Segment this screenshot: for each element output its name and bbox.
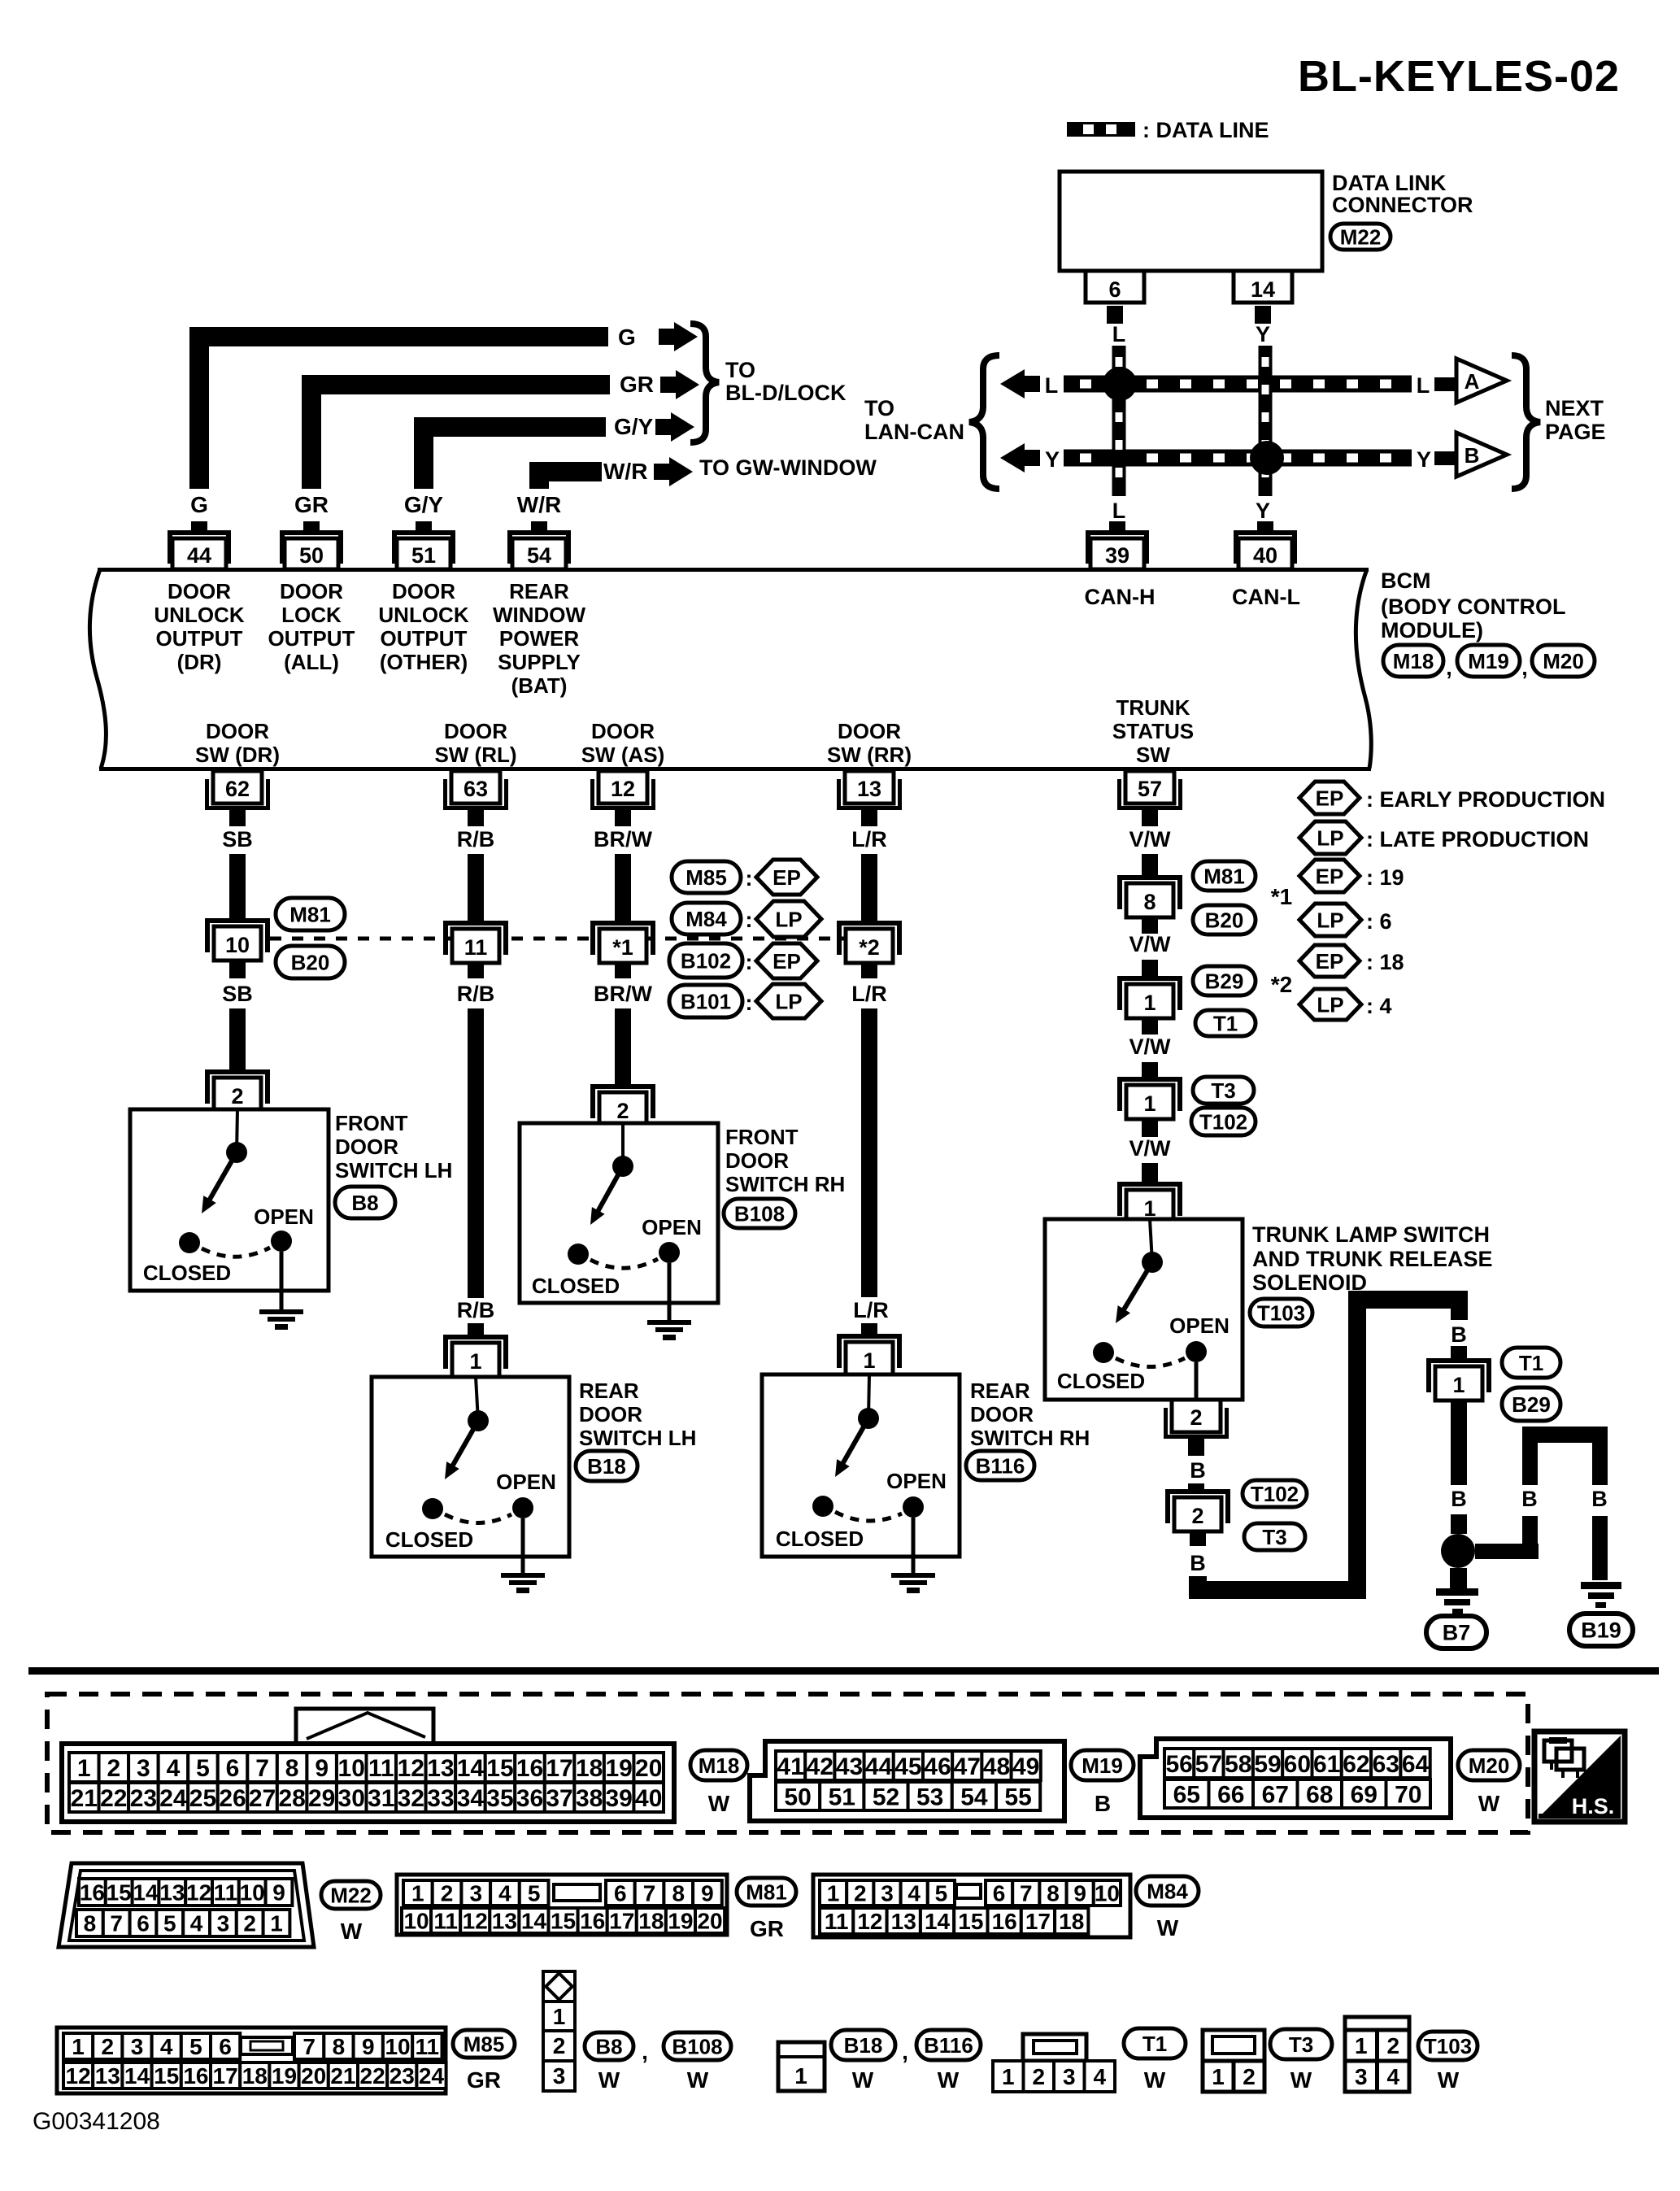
- wire stub below junction: [1450, 1568, 1467, 1588]
- wire L/R long segment: [861, 1008, 877, 1297]
- label V/W 3: [1129, 1035, 1172, 1059]
- connector table B18/B116: [778, 2042, 825, 2091]
- ground of front door switch LH: [259, 1252, 303, 1330]
- svg-text:BL-KEYLES-02: BL-KEYLES-02: [1298, 52, 1620, 101]
- data line Y vertical wire: [1259, 346, 1273, 496]
- wire V/W segment 1: [1142, 854, 1158, 877]
- label FRONT DOOR SWITCH LH: [335, 1111, 452, 1183]
- svg-text:23: 23: [390, 2063, 415, 2089]
- svg-text:W: W: [687, 2067, 709, 2093]
- svg-text:4: 4: [1386, 2064, 1399, 2089]
- svg-text:W: W: [1478, 1791, 1500, 1816]
- svg-text:OPEN: OPEN: [886, 1469, 947, 1493]
- svg-text:B20: B20: [291, 950, 330, 974]
- svg-text:B20: B20: [1205, 908, 1244, 932]
- label L left: [1045, 373, 1059, 398]
- label *2: [1271, 972, 1292, 997]
- svg-text:21: 21: [71, 1785, 98, 1812]
- svg-text:B18: B18: [587, 1454, 626, 1479]
- connector ref oval B20 trunk: [1193, 905, 1256, 934]
- svg-text:20: 20: [301, 2063, 326, 2089]
- svg-text:DOOR: DOOR: [591, 719, 655, 743]
- wire GR from pin 50 to BL-D/LOCK: [302, 375, 610, 489]
- label R/B lower: [457, 982, 495, 1006]
- svg-text:*1: *1: [1271, 884, 1292, 909]
- svg-text:6: 6: [219, 2034, 232, 2059]
- svg-text:W/R: W/R: [603, 459, 647, 484]
- svg-text::: :: [746, 866, 753, 891]
- svg-text:BR/W: BR/W: [594, 982, 652, 1006]
- svg-text:SW (AS): SW (AS): [581, 743, 665, 767]
- svg-text:62: 62: [1343, 1751, 1369, 1778]
- connector ref oval M22 table: [321, 1881, 381, 1909]
- connector ref oval M22: [1330, 224, 1391, 250]
- svg-text:MODULE): MODULE): [1381, 618, 1483, 642]
- connector ref oval M85 table: [453, 2030, 515, 2058]
- svg-text:1: 1: [1143, 991, 1156, 1015]
- svg-text:14: 14: [133, 1880, 159, 1906]
- svg-text:9: 9: [1073, 1881, 1086, 1906]
- svg-text:2: 2: [854, 1881, 867, 1906]
- svg-text:M85: M85: [685, 865, 727, 890]
- svg-text:DOOR: DOOR: [970, 1402, 1034, 1427]
- svg-text:23: 23: [130, 1785, 157, 1812]
- svg-text:15: 15: [551, 1909, 576, 1934]
- svg-text:REAR: REAR: [509, 579, 569, 603]
- label GR M85: [467, 2067, 501, 2093]
- svg-text:3: 3: [137, 1755, 150, 1782]
- svg-text:SB: SB: [222, 982, 253, 1006]
- svg-text:34: 34: [457, 1785, 485, 1812]
- svg-text:DOOR: DOOR: [206, 719, 269, 743]
- svg-text:V/W: V/W: [1129, 932, 1172, 956]
- svg-text:EP: EP: [1316, 949, 1344, 974]
- connector table M85: [57, 2028, 446, 2093]
- label L right: [1417, 373, 1430, 398]
- svg-text:LP: LP: [1317, 908, 1343, 932]
- svg-text:M84: M84: [1147, 1879, 1188, 1903]
- svg-text:1: 1: [469, 1349, 481, 1374]
- svg-text:1: 1: [1143, 1091, 1156, 1116]
- svg-text:18: 18: [1059, 1909, 1084, 1934]
- svg-text:B116: B116: [976, 1453, 1025, 1478]
- svg-text:CLOSED: CLOSED: [776, 1527, 864, 1551]
- label W M18: [708, 1791, 730, 1816]
- connector 1 of rear door switch LH: [443, 1335, 508, 1377]
- svg-text:12: 12: [186, 1880, 211, 1906]
- svg-text:T3: T3: [1262, 1525, 1286, 1549]
- svg-text:T103: T103: [1257, 1300, 1305, 1325]
- svg-text:24: 24: [159, 1785, 187, 1812]
- label CAN-H: [1085, 585, 1156, 609]
- svg-text:DOOR: DOOR: [579, 1402, 642, 1427]
- svg-text:69: 69: [1351, 1781, 1378, 1808]
- label BCM (BODY CONTROL MODULE): [1381, 568, 1566, 642]
- svg-text:Y: Y: [1256, 322, 1270, 346]
- connector ref oval M85 with EP: [672, 860, 817, 895]
- pin 12 BCM: [590, 771, 655, 826]
- svg-text:LP: LP: [1317, 825, 1343, 850]
- connector ref oval M19 of BCM: [1457, 645, 1520, 677]
- svg-text:8: 8: [84, 1911, 97, 1936]
- svg-text:40: 40: [635, 1785, 662, 1812]
- svg-text:B: B: [1451, 1487, 1467, 1511]
- connector ref oval M20 table: [1458, 1750, 1520, 1780]
- connector 2 of front door switch LH: [205, 1069, 270, 1112]
- connector ref oval B102 with EP: [669, 943, 817, 978]
- svg-text:1: 1: [553, 2004, 566, 2029]
- label SB lower: [222, 982, 253, 1006]
- svg-text:,: ,: [902, 2039, 908, 2064]
- pin 62 BCM: [205, 771, 270, 826]
- ground of front door switch RH: [647, 1263, 691, 1340]
- svg-text:17: 17: [213, 2063, 238, 2089]
- label SB: [222, 827, 253, 852]
- svg-text:7: 7: [1020, 1881, 1033, 1906]
- svg-text:44: 44: [865, 1753, 893, 1780]
- label B right branch: [1591, 1487, 1608, 1511]
- svg-text:12: 12: [611, 777, 635, 801]
- svg-text:15: 15: [958, 1909, 983, 1934]
- in-line connector 1 T1/B29: [1426, 1358, 1491, 1400]
- connector ref oval B108 table: [664, 2032, 731, 2060]
- svg-text:B19: B19: [1581, 1618, 1621, 1643]
- connector ref oval T102: [1243, 1480, 1307, 1507]
- svg-text:1: 1: [270, 1911, 283, 1936]
- svg-text:L: L: [1417, 373, 1430, 398]
- svg-text:UNLOCK: UNLOCK: [154, 603, 244, 627]
- svg-text:B7: B7: [1443, 1621, 1471, 1645]
- svg-text:10: 10: [240, 1880, 265, 1906]
- harness view icon H.S.: [1534, 1731, 1625, 1822]
- svg-text:24: 24: [419, 2063, 445, 2089]
- svg-text:REAR: REAR: [970, 1379, 1030, 1403]
- svg-text:17: 17: [1025, 1909, 1051, 1934]
- svg-text:13: 13: [95, 2063, 120, 2089]
- wire V/W segment 3: [1142, 1062, 1158, 1077]
- svg-text:T103: T103: [1424, 2034, 1472, 2058]
- wire R/B stub to connector 1: [468, 1323, 484, 1336]
- label L/R bottom: [853, 1298, 889, 1322]
- svg-text:: DATA LINE: : DATA LINE: [1142, 118, 1269, 142]
- svg-text:6: 6: [1108, 277, 1121, 302]
- svg-text:LAN-CAN: LAN-CAN: [864, 420, 964, 444]
- svg-text:M19: M19: [1468, 649, 1509, 673]
- label B above junction: [1451, 1487, 1467, 1511]
- pin 57 BCM: [1117, 771, 1182, 826]
- svg-text:AND TRUNK RELEASE: AND TRUNK RELEASE: [1252, 1247, 1493, 1271]
- dashed harness box M18 M19 M20: [47, 1694, 1528, 1832]
- svg-text::: :: [746, 908, 753, 932]
- svg-text:9: 9: [362, 2034, 375, 2059]
- hexagon LP 6: [1299, 904, 1392, 936]
- svg-text:49: 49: [1012, 1753, 1039, 1780]
- label V/W 4: [1129, 1136, 1172, 1161]
- svg-text:B8: B8: [595, 2034, 622, 2058]
- label REAR DOOR SWITCH LH: [579, 1379, 696, 1450]
- svg-text:4: 4: [167, 1755, 181, 1782]
- label REAR DOOR SWITCH RH: [970, 1379, 1090, 1450]
- svg-text:LOCK: LOCK: [281, 603, 342, 627]
- svg-text:48: 48: [983, 1753, 1010, 1780]
- svg-text:37: 37: [546, 1785, 572, 1812]
- svg-text:NEXT: NEXT: [1545, 396, 1604, 420]
- wire L/R upper segment: [861, 854, 877, 921]
- svg-text:SW (DR): SW (DR): [195, 743, 280, 767]
- svg-text:29: 29: [308, 1785, 335, 1812]
- svg-text:B116: B116: [924, 2033, 973, 2058]
- label DOOR SW (DR): [195, 719, 280, 767]
- svg-text:2: 2: [107, 1755, 120, 1782]
- svg-text:M22: M22: [330, 1883, 372, 1907]
- svg-text:9: 9: [315, 1755, 329, 1782]
- svg-text:27: 27: [249, 1785, 276, 1812]
- label W/R above pin 54: [517, 492, 561, 517]
- connector ref oval T1 trunk: [1195, 1010, 1256, 1036]
- svg-text:50: 50: [784, 1784, 811, 1810]
- wire L/R stub to connector 1: [861, 1323, 877, 1336]
- svg-text:B: B: [1451, 1322, 1467, 1347]
- svg-text:(ALL): (ALL): [284, 650, 339, 674]
- svg-text:UNLOCK: UNLOCK: [378, 603, 468, 627]
- svg-text:OPEN: OPEN: [642, 1215, 702, 1239]
- pin 40 BCM CAN-L: [1234, 521, 1297, 569]
- svg-text:W: W: [598, 2067, 620, 2093]
- hexagon EP 18: [1299, 945, 1404, 977]
- connector table M18 keying bump: [296, 1709, 433, 1746]
- svg-text:6: 6: [614, 1881, 627, 1906]
- trunk lamp switch box: [1045, 1219, 1243, 1400]
- label W B8: [598, 2067, 620, 2093]
- svg-text:8: 8: [285, 1755, 299, 1782]
- ground of rear door switch LH: [501, 1518, 545, 1593]
- svg-text:5: 5: [935, 1881, 948, 1906]
- svg-text:14: 14: [521, 1909, 547, 1934]
- svg-text:SWITCH RH: SWITCH RH: [725, 1172, 845, 1196]
- svg-text:11: 11: [433, 1909, 458, 1934]
- svg-text:M81: M81: [1203, 864, 1245, 888]
- svg-text:31: 31: [368, 1785, 394, 1812]
- svg-text:M81: M81: [746, 1880, 787, 1904]
- stub before triangle B: [1434, 451, 1456, 465]
- svg-text:33: 33: [427, 1785, 454, 1812]
- pin 51 BCM: [392, 521, 455, 569]
- label V/W: [1129, 827, 1172, 852]
- in-line connector *2: [837, 921, 902, 963]
- svg-text:CONNECTOR: CONNECTOR: [1332, 193, 1473, 217]
- svg-text:OUTPUT: OUTPUT: [268, 626, 355, 651]
- label GR M81: [750, 1916, 784, 1941]
- svg-text:: 19: : 19: [1366, 865, 1404, 890]
- next page triangle A: [1456, 359, 1507, 403]
- svg-text:12: 12: [857, 1909, 882, 1934]
- svg-text:DOOR: DOOR: [444, 719, 507, 743]
- ground of rear door switch RH: [891, 1518, 935, 1593]
- wire R/B long segment: [468, 1008, 484, 1298]
- svg-text:26: 26: [219, 1785, 246, 1812]
- svg-text:45: 45: [894, 1753, 921, 1780]
- label W T1: [1144, 2067, 1166, 2093]
- connector ref oval T103 table: [1418, 2032, 1478, 2060]
- svg-text:W: W: [341, 1919, 363, 1944]
- svg-text:14: 14: [1251, 277, 1275, 302]
- svg-text:B29: B29: [1205, 969, 1244, 993]
- svg-text:EP: EP: [773, 865, 801, 890]
- label NEXT PAGE: [1545, 396, 1606, 444]
- label DOOR UNLOCK OUTPUT (DR): [154, 579, 244, 674]
- connector 2 of front door switch RH: [590, 1084, 655, 1126]
- svg-text:M18: M18: [1393, 649, 1434, 673]
- svg-text:15: 15: [154, 2063, 179, 2089]
- svg-text:CLOSED: CLOSED: [532, 1274, 620, 1298]
- svg-text:(BODY CONTROL: (BODY CONTROL: [1381, 595, 1566, 619]
- pin 63 BCM: [443, 771, 508, 826]
- connector table M84: [813, 1875, 1130, 1937]
- connector ref oval T102 trunk: [1191, 1108, 1256, 1135]
- svg-text:B29: B29: [1512, 1392, 1551, 1417]
- connector ref oval M84 table: [1136, 1876, 1199, 1906]
- svg-text:T102: T102: [1199, 1109, 1247, 1134]
- svg-text:V/W: V/W: [1129, 827, 1172, 852]
- svg-text:OUTPUT: OUTPUT: [381, 626, 468, 651]
- svg-text:TO: TO: [864, 396, 894, 420]
- svg-text:L: L: [1045, 373, 1059, 398]
- svg-text:60: 60: [1284, 1751, 1311, 1778]
- arrow left to LAN-CAN row Y: [1000, 443, 1040, 473]
- wire V/W segment 2: [1142, 960, 1158, 978]
- svg-text:22: 22: [360, 2063, 385, 2089]
- connector ref oval T3 trunk: [1193, 1077, 1254, 1104]
- label *1: [1271, 884, 1292, 909]
- label Y right: [1417, 447, 1431, 472]
- svg-text:5: 5: [189, 2034, 202, 2059]
- brace right NEXT PAGE: [1512, 355, 1540, 489]
- svg-text:(BAT): (BAT): [511, 673, 568, 698]
- svg-text:PAGE: PAGE: [1545, 420, 1606, 444]
- svg-text:M20: M20: [1543, 649, 1584, 673]
- svg-text:LP: LP: [775, 989, 802, 1013]
- svg-text:1: 1: [794, 2063, 807, 2089]
- svg-text:W/R: W/R: [517, 492, 561, 517]
- junction node on Y data line: [1250, 441, 1284, 475]
- svg-text:B101: B101: [681, 989, 731, 1013]
- wire stub below connector 1b: [1142, 1119, 1158, 1137]
- label GR wire color right: [620, 372, 654, 397]
- svg-text:W: W: [1290, 2067, 1312, 2093]
- svg-text:T3: T3: [1211, 1078, 1235, 1103]
- svg-text:Y: Y: [1256, 499, 1270, 523]
- svg-text:B: B: [1190, 1551, 1206, 1575]
- svg-text:18: 18: [576, 1755, 603, 1782]
- svg-text:,: ,: [1521, 656, 1528, 680]
- wire SB upper segment: [229, 854, 246, 918]
- svg-text:12: 12: [463, 1909, 488, 1934]
- dashed link line between in-line connectors: [270, 937, 846, 941]
- svg-text:8: 8: [1143, 890, 1156, 914]
- svg-text:DATA LINK: DATA LINK: [1332, 171, 1447, 195]
- figure number G00341208: [33, 2108, 160, 2135]
- svg-text:M19: M19: [1082, 1753, 1123, 1778]
- wire stub below connector 11: [468, 963, 484, 978]
- svg-text:6: 6: [137, 1911, 150, 1936]
- svg-text:15: 15: [486, 1755, 513, 1782]
- svg-text:(OTHER): (OTHER): [380, 650, 468, 674]
- pin 54 BCM: [507, 521, 571, 569]
- svg-text:,: ,: [1446, 656, 1452, 680]
- ground B7: [1436, 1588, 1478, 1614]
- wire W/R from pin 54 to GW-WINDOW: [529, 462, 602, 489]
- svg-text:3: 3: [881, 1881, 894, 1906]
- svg-text:16: 16: [80, 1880, 105, 1906]
- svg-text:: EARLY PRODUCTION: : EARLY PRODUCTION: [1366, 787, 1605, 812]
- svg-text:: 18: : 18: [1366, 950, 1404, 974]
- label Y left: [1045, 447, 1060, 472]
- svg-text:L/R: L/R: [851, 827, 887, 852]
- svg-text:68: 68: [1306, 1781, 1333, 1808]
- label L below pin 6: [1112, 322, 1126, 346]
- data line L vertical wire: [1112, 346, 1126, 496]
- svg-text:: LATE PRODUCTION: : LATE PRODUCTION: [1366, 827, 1589, 852]
- svg-text:SW (RL): SW (RL): [434, 743, 516, 767]
- label G above pin 44: [190, 492, 208, 517]
- svg-text:8: 8: [672, 1881, 685, 1906]
- svg-text:3: 3: [553, 2063, 566, 2089]
- label G/Y wire color right: [614, 414, 654, 439]
- label TO BL-D/LOCK: [725, 358, 847, 405]
- svg-text:43: 43: [836, 1753, 863, 1780]
- in-line connector 10: [205, 918, 270, 960]
- svg-text:SUPPLY: SUPPLY: [498, 650, 581, 674]
- pin 6 of data link connector: [1086, 271, 1144, 324]
- ground B19: [1581, 1582, 1621, 1608]
- svg-text:12: 12: [398, 1755, 424, 1782]
- svg-text:67: 67: [1262, 1781, 1289, 1808]
- front door switch LH box: [130, 1109, 329, 1291]
- connector table T103: [1345, 2017, 1409, 2092]
- svg-text:19: 19: [668, 1909, 693, 1934]
- label DOOR SW (AS): [581, 719, 665, 767]
- svg-text:1: 1: [1452, 1373, 1465, 1397]
- svg-text:1: 1: [1212, 2064, 1225, 2089]
- svg-text:63: 63: [464, 777, 488, 801]
- svg-text:CLOSED: CLOSED: [385, 1527, 473, 1552]
- svg-text:CAN-H: CAN-H: [1085, 585, 1156, 609]
- legend DATA LINE sample: [1067, 122, 1135, 137]
- svg-text:4: 4: [160, 2034, 173, 2059]
- connector ref oval B7: [1426, 1616, 1486, 1649]
- svg-text:70: 70: [1395, 1781, 1421, 1808]
- svg-text:BCM: BCM: [1381, 568, 1431, 593]
- svg-text:10: 10: [338, 1755, 365, 1782]
- svg-text:OUTPUT: OUTPUT: [156, 626, 243, 651]
- svg-text:L: L: [1112, 322, 1126, 346]
- label DATA LINK CONNECTOR: [1332, 171, 1473, 217]
- svg-text:SWITCH RH: SWITCH RH: [970, 1426, 1090, 1450]
- svg-text:10: 10: [403, 1909, 429, 1934]
- svg-text:(DR): (DR): [177, 650, 222, 674]
- svg-text:7: 7: [302, 2034, 316, 2059]
- label FRONT DOOR SWITCH RH: [725, 1125, 845, 1196]
- svg-text:16: 16: [992, 1909, 1017, 1934]
- title BL-KEYLES-02: [1298, 52, 1620, 101]
- wire stub below connector *2: [861, 963, 877, 978]
- svg-text:B: B: [1521, 1487, 1538, 1511]
- brace left TO LAN-CAN: [969, 355, 999, 489]
- label W T103: [1438, 2067, 1460, 2093]
- label W M22: [341, 1919, 363, 1944]
- svg-text:M85: M85: [464, 2032, 505, 2056]
- connector ref oval M81 table: [737, 1878, 796, 1906]
